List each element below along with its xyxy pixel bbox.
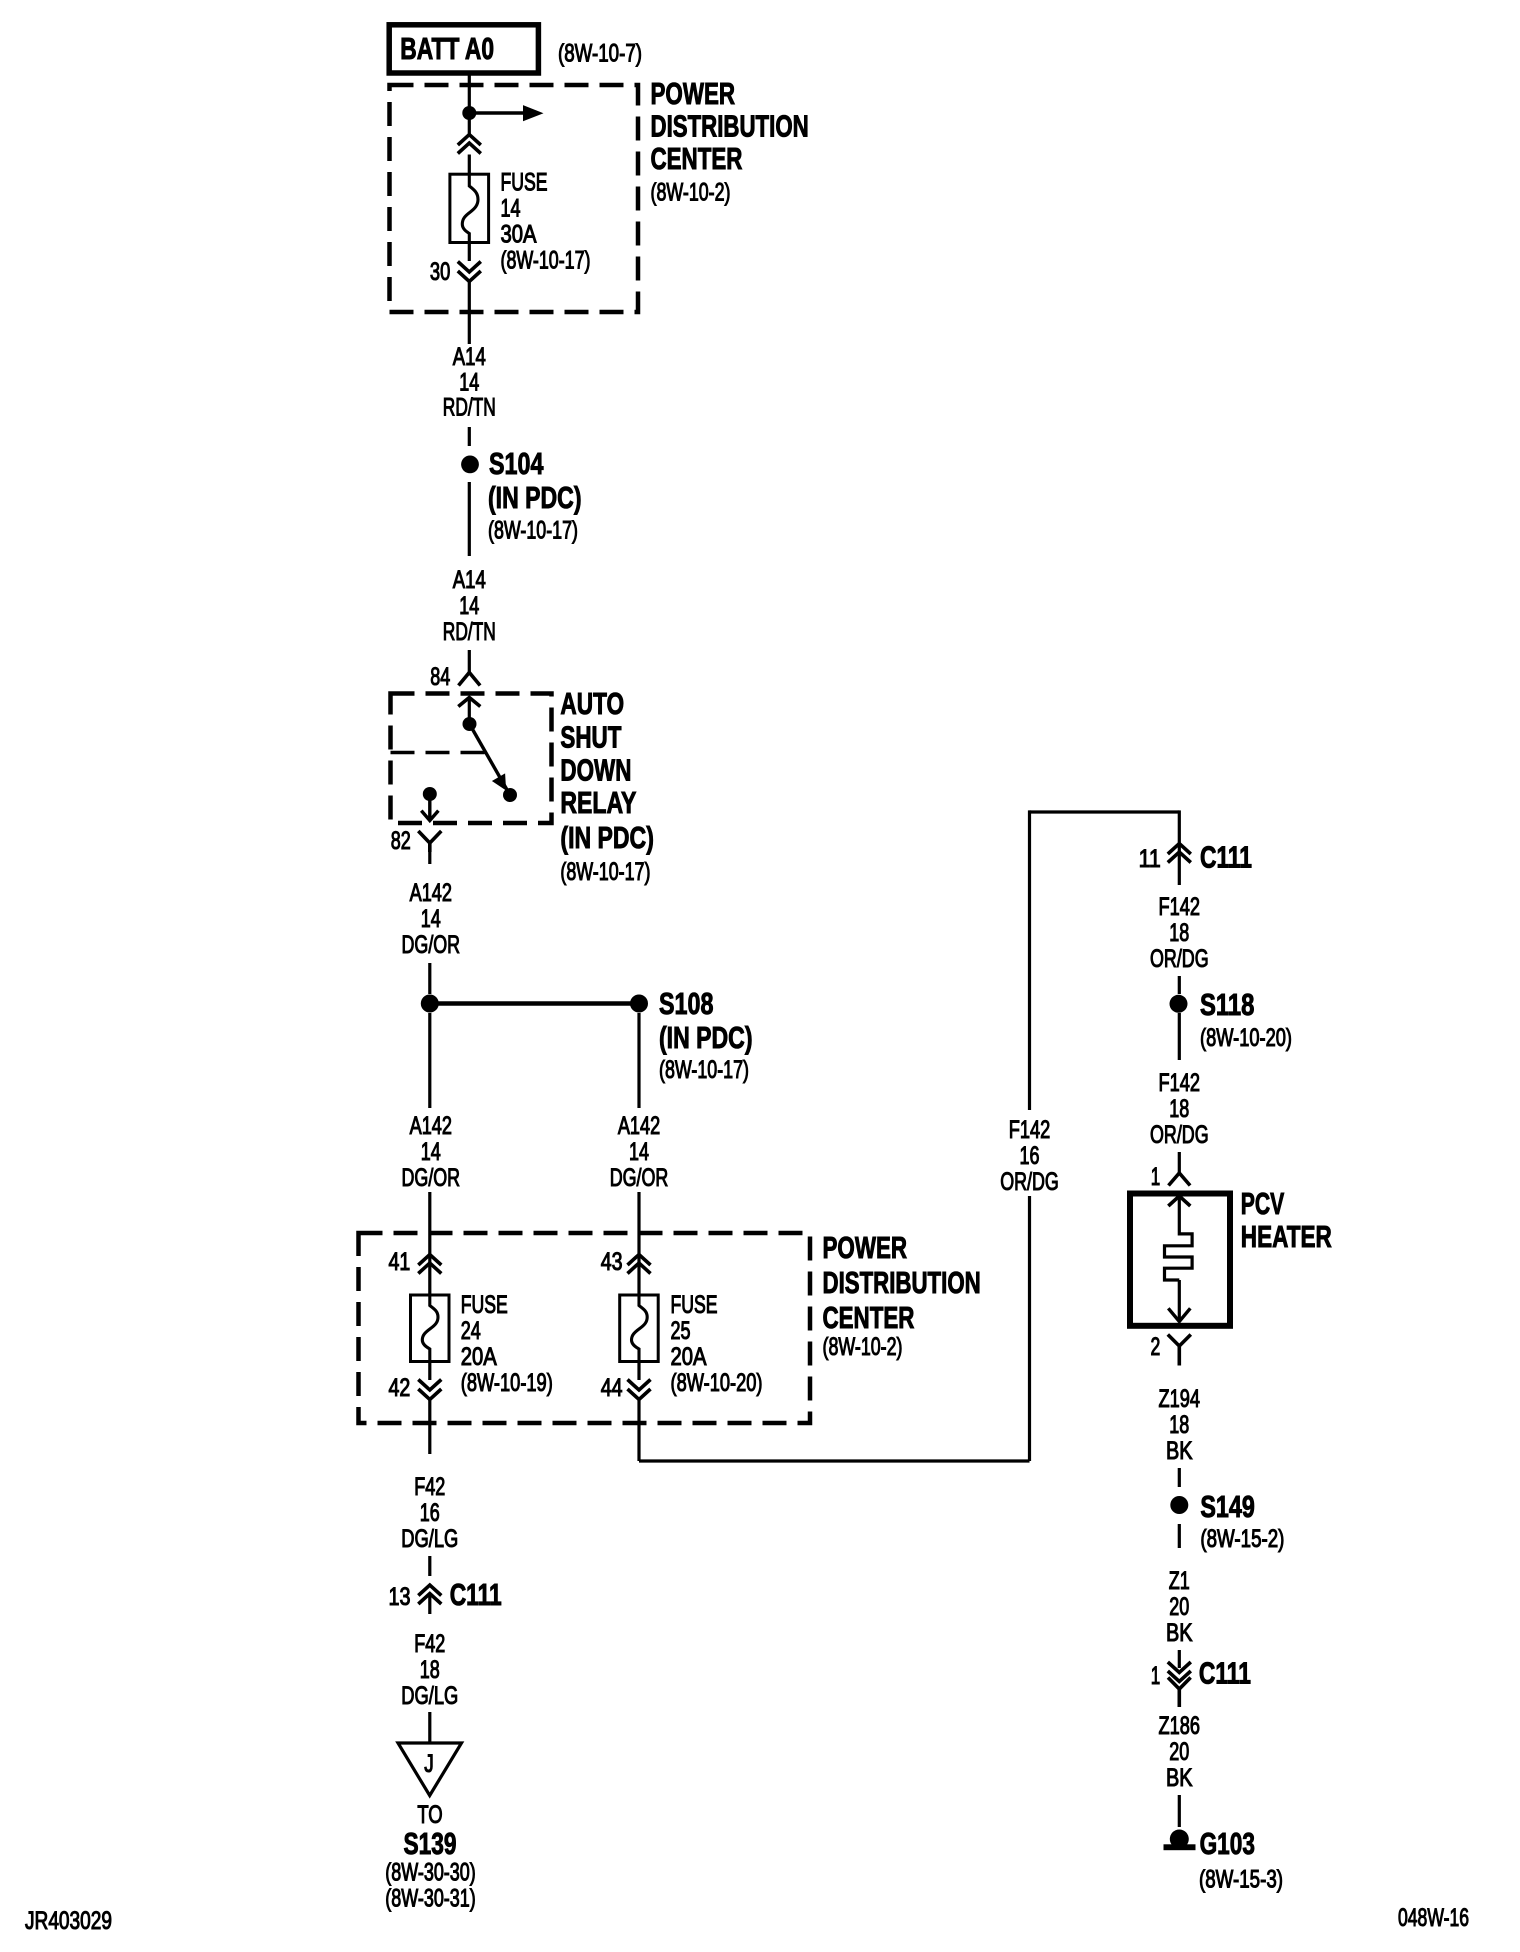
fuse 25 element wave — [632, 1295, 648, 1362]
svg-text:CENTER: CENTER — [651, 141, 743, 176]
svg-text:14: 14 — [501, 195, 521, 223]
svg-text:Z194: Z194 — [1159, 1385, 1201, 1413]
wire down to C111 pin 11 — [1178, 810, 1181, 852]
svg-text:JR403029: JR403029 — [25, 1907, 112, 1935]
svg-text:BK: BK — [1166, 1437, 1193, 1465]
pin 30 connector (double chevron down) — [458, 262, 481, 273]
arrow feed to other circuits — [469, 111, 527, 115]
pin 43 connector — [628, 1255, 651, 1266]
svg-text:C111: C111 — [1199, 1656, 1251, 1691]
svg-text:(8W-10-7): (8W-10-7) — [558, 40, 642, 68]
splice S118 — [1170, 995, 1188, 1013]
svg-text:30: 30 — [430, 258, 450, 286]
svg-text:(IN PDC): (IN PDC) — [488, 480, 582, 515]
svg-text:OR/DG: OR/DG — [1150, 945, 1209, 973]
connector C111 pin 1 — [1168, 1662, 1191, 1673]
svg-text:DOWN: DOWN — [560, 753, 631, 788]
svg-text:BK: BK — [1166, 1764, 1193, 1792]
svg-text:(8W-10-17): (8W-10-17) — [488, 517, 578, 545]
fuse 14 box — [450, 174, 489, 242]
splice S108 — [630, 995, 648, 1013]
svg-text:DG/OR: DG/OR — [402, 1164, 461, 1192]
wire from fuse 14 to pin 30 — [468, 243, 471, 262]
pin 82 connector female half — [418, 831, 441, 843]
svg-text:20A: 20A — [671, 1343, 707, 1371]
wire F142 horizontal run — [639, 1459, 1030, 1462]
pin 2 connector female half — [1168, 1335, 1191, 1347]
svg-text:DISTRIBUTION: DISTRIBUTION — [651, 109, 809, 144]
power distribution center dashed box (top) — [390, 85, 639, 312]
svg-text:POWER: POWER — [823, 1230, 908, 1265]
svg-text:20A: 20A — [461, 1343, 497, 1371]
wire to splice junction — [428, 963, 431, 994]
fuse 24 element wave — [422, 1295, 438, 1362]
svg-text:(8W-10-2): (8W-10-2) — [651, 179, 731, 207]
pin 84 connector male half — [459, 673, 481, 686]
svg-text:POWER: POWER — [651, 76, 736, 111]
svg-text:14: 14 — [421, 1138, 441, 1166]
wire A142 from relay — [428, 852, 431, 864]
wire F142 from pin 44 down — [637, 1400, 640, 1462]
wire to heater element — [1178, 1196, 1181, 1236]
svg-text:HEATER: HEATER — [1241, 1219, 1332, 1254]
svg-text:(8W-30-31): (8W-30-31) — [385, 1885, 476, 1913]
svg-text:20: 20 — [1169, 1738, 1189, 1766]
wire into PDC pin 41 — [428, 1192, 431, 1263]
wire F42 leaving PDC — [428, 1400, 431, 1455]
relay pin 82 contact dot — [423, 787, 437, 801]
svg-text:S149: S149 — [1200, 1489, 1254, 1524]
wire to off-page connector J — [428, 1712, 431, 1742]
fuse 24 box — [411, 1295, 450, 1362]
power distribution center dashed box (lower) — [359, 1233, 811, 1423]
svg-text:S139: S139 — [404, 1826, 457, 1861]
svg-text:43: 43 — [601, 1248, 623, 1276]
wire pin 43 to fuse 25 — [637, 1263, 640, 1295]
battery feed box BATT A0 — [389, 25, 538, 73]
svg-text:(8W-10-20): (8W-10-20) — [1200, 1024, 1292, 1052]
svg-text:41: 41 — [389, 1248, 411, 1276]
svg-text:F142: F142 — [1159, 1069, 1201, 1097]
svg-text:DG/OR: DG/OR — [610, 1164, 669, 1192]
svg-text:1: 1 — [1151, 1662, 1161, 1690]
wire from S104 — [468, 482, 471, 556]
svg-text:C111: C111 — [450, 1577, 502, 1612]
svg-text:(8W-10-2): (8W-10-2) — [823, 1333, 903, 1361]
svg-text:18: 18 — [1169, 1095, 1189, 1123]
wire pin 41 to fuse 24 — [428, 1263, 431, 1295]
svg-text:RELAY: RELAY — [560, 785, 636, 820]
svg-text:(8W-10-17): (8W-10-17) — [501, 247, 591, 275]
svg-text:11: 11 — [1139, 845, 1161, 873]
relay switch contact dot — [503, 788, 517, 802]
wire pin 84 to switch pivot — [468, 698, 471, 719]
svg-text:20: 20 — [1169, 1593, 1189, 1621]
junction node dot — [462, 106, 476, 120]
wire below S108 (right) — [637, 1013, 640, 1108]
svg-text:TO: TO — [417, 1801, 442, 1829]
wire heater element to pin 2 arrow — [1178, 1280, 1181, 1322]
svg-text:DISTRIBUTION: DISTRIBUTION — [823, 1265, 981, 1300]
splice bus wire to S108 — [430, 1001, 639, 1005]
svg-text:18: 18 — [1169, 919, 1189, 947]
wire below C111 pin 11 — [1178, 852, 1181, 885]
wire into fuse 14 — [468, 155, 471, 175]
svg-text:(8W-10-20): (8W-10-20) — [671, 1369, 763, 1397]
svg-text:13: 13 — [389, 1583, 411, 1611]
svg-text:RD/TN: RD/TN — [443, 618, 496, 646]
svg-text:SHUT: SHUT — [560, 720, 621, 755]
pin 41 connector — [418, 1255, 441, 1266]
wire fuse 24 to pin 42 — [428, 1362, 431, 1381]
connector C111 pin 13 — [418, 1585, 441, 1596]
svg-text:A142: A142 — [618, 1112, 660, 1140]
svg-text:A14: A14 — [453, 566, 486, 594]
splice junction dot (S108 left) — [421, 995, 439, 1013]
svg-text:84: 84 — [430, 663, 450, 691]
auto shut down relay dashed box — [391, 694, 552, 824]
svg-text:DG/OR: DG/OR — [402, 931, 461, 959]
svg-text:16: 16 — [1020, 1142, 1040, 1170]
svg-text:(8W-15-2): (8W-15-2) — [1200, 1525, 1284, 1553]
svg-text:44: 44 — [601, 1374, 623, 1402]
wire below C111 pin 13 — [428, 1594, 431, 1615]
svg-text:42: 42 — [389, 1374, 411, 1402]
svg-text:048W-16: 048W-16 — [1398, 1904, 1469, 1932]
in-line connector (double chevron) below junction — [458, 135, 481, 146]
svg-text:OR/DG: OR/DG — [1150, 1121, 1209, 1149]
fuse 14 element wave — [462, 174, 478, 242]
wire to relay pin 84 — [468, 650, 471, 673]
svg-text:16: 16 — [420, 1499, 440, 1527]
svg-text:14: 14 — [629, 1138, 649, 1166]
PCV heater box — [1130, 1194, 1230, 1326]
connector C111 pin 11 — [1168, 844, 1191, 855]
svg-text:DG/LG: DG/LG — [401, 1525, 458, 1553]
svg-text:C111: C111 — [1200, 840, 1252, 875]
svg-text:24: 24 — [461, 1317, 481, 1345]
pin 84 connector female half inside relay — [458, 698, 480, 707]
svg-text:(8W-10-19): (8W-10-19) — [461, 1369, 553, 1397]
svg-text:F142: F142 — [1009, 1116, 1051, 1144]
pin 44 connector — [628, 1380, 651, 1391]
svg-text:F42: F42 — [414, 1630, 445, 1658]
svg-text:BATT A0: BATT A0 — [400, 31, 494, 66]
wire to PCV heater pin 1 — [1178, 1152, 1181, 1173]
wire to C111 pin 1 — [1178, 1650, 1181, 1668]
relay switch pivot dot — [463, 717, 477, 731]
svg-text:(8W-10-17): (8W-10-17) — [560, 858, 650, 886]
svg-text:A142: A142 — [410, 879, 452, 907]
svg-text:A142: A142 — [410, 1112, 452, 1140]
svg-text:30A: 30A — [501, 221, 537, 249]
svg-text:Z186: Z186 — [1159, 1712, 1201, 1740]
wire to splice S149 — [1178, 1468, 1181, 1487]
svg-text:S118: S118 — [1200, 987, 1254, 1022]
svg-text:S108: S108 — [659, 986, 713, 1021]
svg-text:2: 2 — [1151, 1333, 1161, 1361]
wire fuse 25 to pin 44 — [637, 1362, 640, 1381]
wire to splice S104 — [468, 427, 471, 446]
svg-text:(IN PDC): (IN PDC) — [659, 1020, 753, 1055]
svg-text:(8W-15-3): (8W-15-3) — [1199, 1866, 1283, 1894]
off-page connector J (triangle) — [398, 1743, 462, 1796]
ground G103 — [1170, 1830, 1189, 1849]
svg-text:G103: G103 — [1200, 1826, 1255, 1861]
svg-text:(8W-30-30): (8W-30-30) — [385, 1859, 476, 1887]
svg-text:18: 18 — [420, 1656, 440, 1684]
svg-text:14: 14 — [459, 592, 479, 620]
splice S104 — [461, 456, 479, 474]
wire from S149 — [1178, 1524, 1181, 1548]
svg-text:AUTO: AUTO — [560, 686, 624, 721]
wire F142 riser to top — [1028, 810, 1031, 1110]
splice S149 — [1170, 1496, 1188, 1514]
svg-text:F142: F142 — [1159, 893, 1201, 921]
svg-text:RD/TN: RD/TN — [443, 394, 496, 422]
pin 1 connector male half — [1169, 1173, 1191, 1186]
relay pin 82 arrow down — [428, 794, 431, 821]
wire from S118 — [1178, 1013, 1181, 1060]
svg-text:82: 82 — [391, 827, 411, 855]
pin 42 connector — [418, 1380, 441, 1391]
svg-text:CENTER: CENTER — [823, 1300, 915, 1335]
wire F142 top bridge — [1030, 810, 1180, 813]
svg-text:1: 1 — [1151, 1163, 1161, 1191]
wire A14 leaving PDC — [468, 282, 471, 345]
svg-text:FUSE: FUSE — [671, 1291, 718, 1319]
wire to splice S118 — [1178, 976, 1181, 994]
svg-text:18: 18 — [1169, 1411, 1189, 1439]
svg-text:Z1: Z1 — [1169, 1567, 1190, 1595]
wire below junction (left) — [428, 1013, 431, 1108]
svg-text:DG/LG: DG/LG — [401, 1682, 458, 1710]
svg-text:14: 14 — [459, 369, 479, 397]
svg-text:A14: A14 — [453, 343, 486, 371]
svg-text:J: J — [424, 1750, 434, 1778]
wire to ground G103 — [1178, 1795, 1181, 1827]
relay internal dashed partition — [391, 751, 487, 755]
svg-text:FUSE: FUSE — [461, 1291, 508, 1319]
svg-text:14: 14 — [421, 905, 441, 933]
svg-text:(8W-10-17): (8W-10-17) — [659, 1056, 749, 1084]
svg-text:PCV: PCV — [1241, 1186, 1285, 1221]
pin 1 connector female half inside PCV — [1168, 1196, 1190, 1206]
svg-text:F42: F42 — [414, 1473, 445, 1501]
svg-text:(IN PDC): (IN PDC) — [560, 820, 654, 855]
relay switch arm with arrowhead — [470, 724, 511, 795]
svg-text:OR/DG: OR/DG — [1000, 1168, 1059, 1196]
wire to C111 pin 13 — [428, 1556, 431, 1576]
svg-text:FUSE: FUSE — [501, 169, 548, 197]
PCV heater element (meander) — [1165, 1234, 1193, 1280]
wire from BATT A0 to junction — [468, 73, 471, 135]
wire into PDC pin 43 — [637, 1192, 640, 1263]
svg-text:BK: BK — [1166, 1619, 1193, 1647]
svg-text:25: 25 — [671, 1317, 691, 1345]
fuse 25 box — [620, 1295, 659, 1362]
svg-text:S104: S104 — [489, 446, 544, 481]
